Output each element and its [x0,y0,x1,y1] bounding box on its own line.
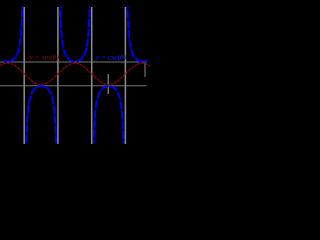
tangent line y=1 [0,61,147,63]
cosecant curve branch 5 [127,6,146,61]
cosecant curve branch 1 [3,6,22,61]
svg-text:y = csc(θ): y = csc(θ) [95,52,127,61]
vertical asymptote x=24.2 [23,7,25,144]
cosecant curve branch 2 [26,86,56,143]
vertical asymptote x=57.9 [57,7,59,144]
cosecant curve branch 4 [94,86,124,143]
sine curve (red dashed) [0,63,150,84]
vertical asymptote x=91.7 [91,7,93,144]
tick mark at x=108 [107,74,109,94]
tick mark at x=145 [144,62,146,77]
svg-text:y = sin(θ): y = sin(θ) [28,52,59,61]
cosecant curve branch 3 [60,6,73,61]
vertical asymptote x=125.4 [124,7,126,144]
tangent line y=-1 [0,85,147,87]
